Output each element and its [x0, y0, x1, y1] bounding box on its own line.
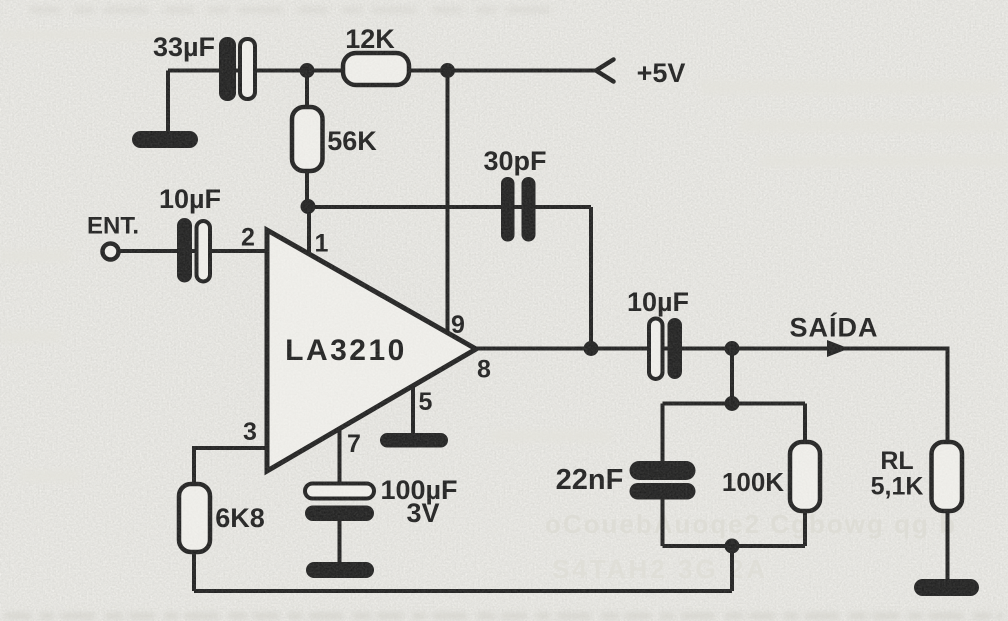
wire network top rail: [663, 402, 806, 406]
resistor R3 6K8: [179, 484, 210, 552]
node B junction: [440, 63, 455, 78]
wire 56K branch: [305, 71, 309, 208]
wire RL to ground: [946, 511, 950, 581]
op-amp U1 triangle: [267, 230, 476, 471]
resistor R1 12K: [343, 53, 409, 85]
node C junction: [301, 199, 316, 214]
wire 22nF top: [661, 404, 665, 464]
wire 100uF to ground: [338, 519, 342, 564]
capacitor C6 10uF output: [649, 318, 682, 379]
capacitor C4 30pF: [501, 177, 536, 242]
SAIDA arrow: [827, 340, 849, 357]
node E junction: [725, 341, 740, 356]
resistor R2 56K: [292, 107, 323, 171]
node A junction: [300, 63, 315, 78]
node G junction: [725, 539, 740, 554]
node F junction: [725, 396, 740, 411]
wire input: [118, 249, 267, 253]
wire network bottom rail: [663, 544, 806, 548]
ground G4 (RL): [914, 579, 979, 596]
wire 100K top: [803, 404, 807, 445]
wire network to bottom rail: [730, 546, 734, 591]
wire 22nF bottom: [661, 498, 665, 546]
wire 100K bottom: [803, 511, 807, 546]
wire +5V rail: [168, 69, 596, 73]
wire pin5: [411, 384, 415, 436]
wire pin3: [194, 448, 267, 591]
+5V supply chevron: [596, 60, 614, 82]
node D junction: [584, 341, 599, 356]
capacitor C5 100uF: [305, 484, 374, 522]
wire output node to network: [730, 349, 734, 404]
wire output rail: [476, 349, 948, 445]
ground G1 (33uF): [132, 131, 198, 148]
wire 30pF to output node: [589, 207, 593, 349]
ground G2 (pin5): [380, 433, 448, 448]
capacitor C2 10uF input: [177, 218, 210, 283]
wire feedback horizontal: [307, 205, 591, 209]
resistor R4 100K: [790, 442, 820, 511]
capacitor C1 33uF: [219, 37, 255, 101]
wire 33uF ground drop: [166, 71, 170, 137]
resistor R5 RL: [932, 442, 963, 511]
wire pin1: [307, 207, 311, 256]
capacitor C7 22nF: [630, 461, 696, 500]
input terminal circle: [103, 244, 119, 260]
wire bottom rail: [194, 589, 732, 593]
wire pin7: [338, 427, 342, 486]
ground G3 (100uF): [306, 562, 374, 578]
wire pin9: [446, 71, 450, 335]
